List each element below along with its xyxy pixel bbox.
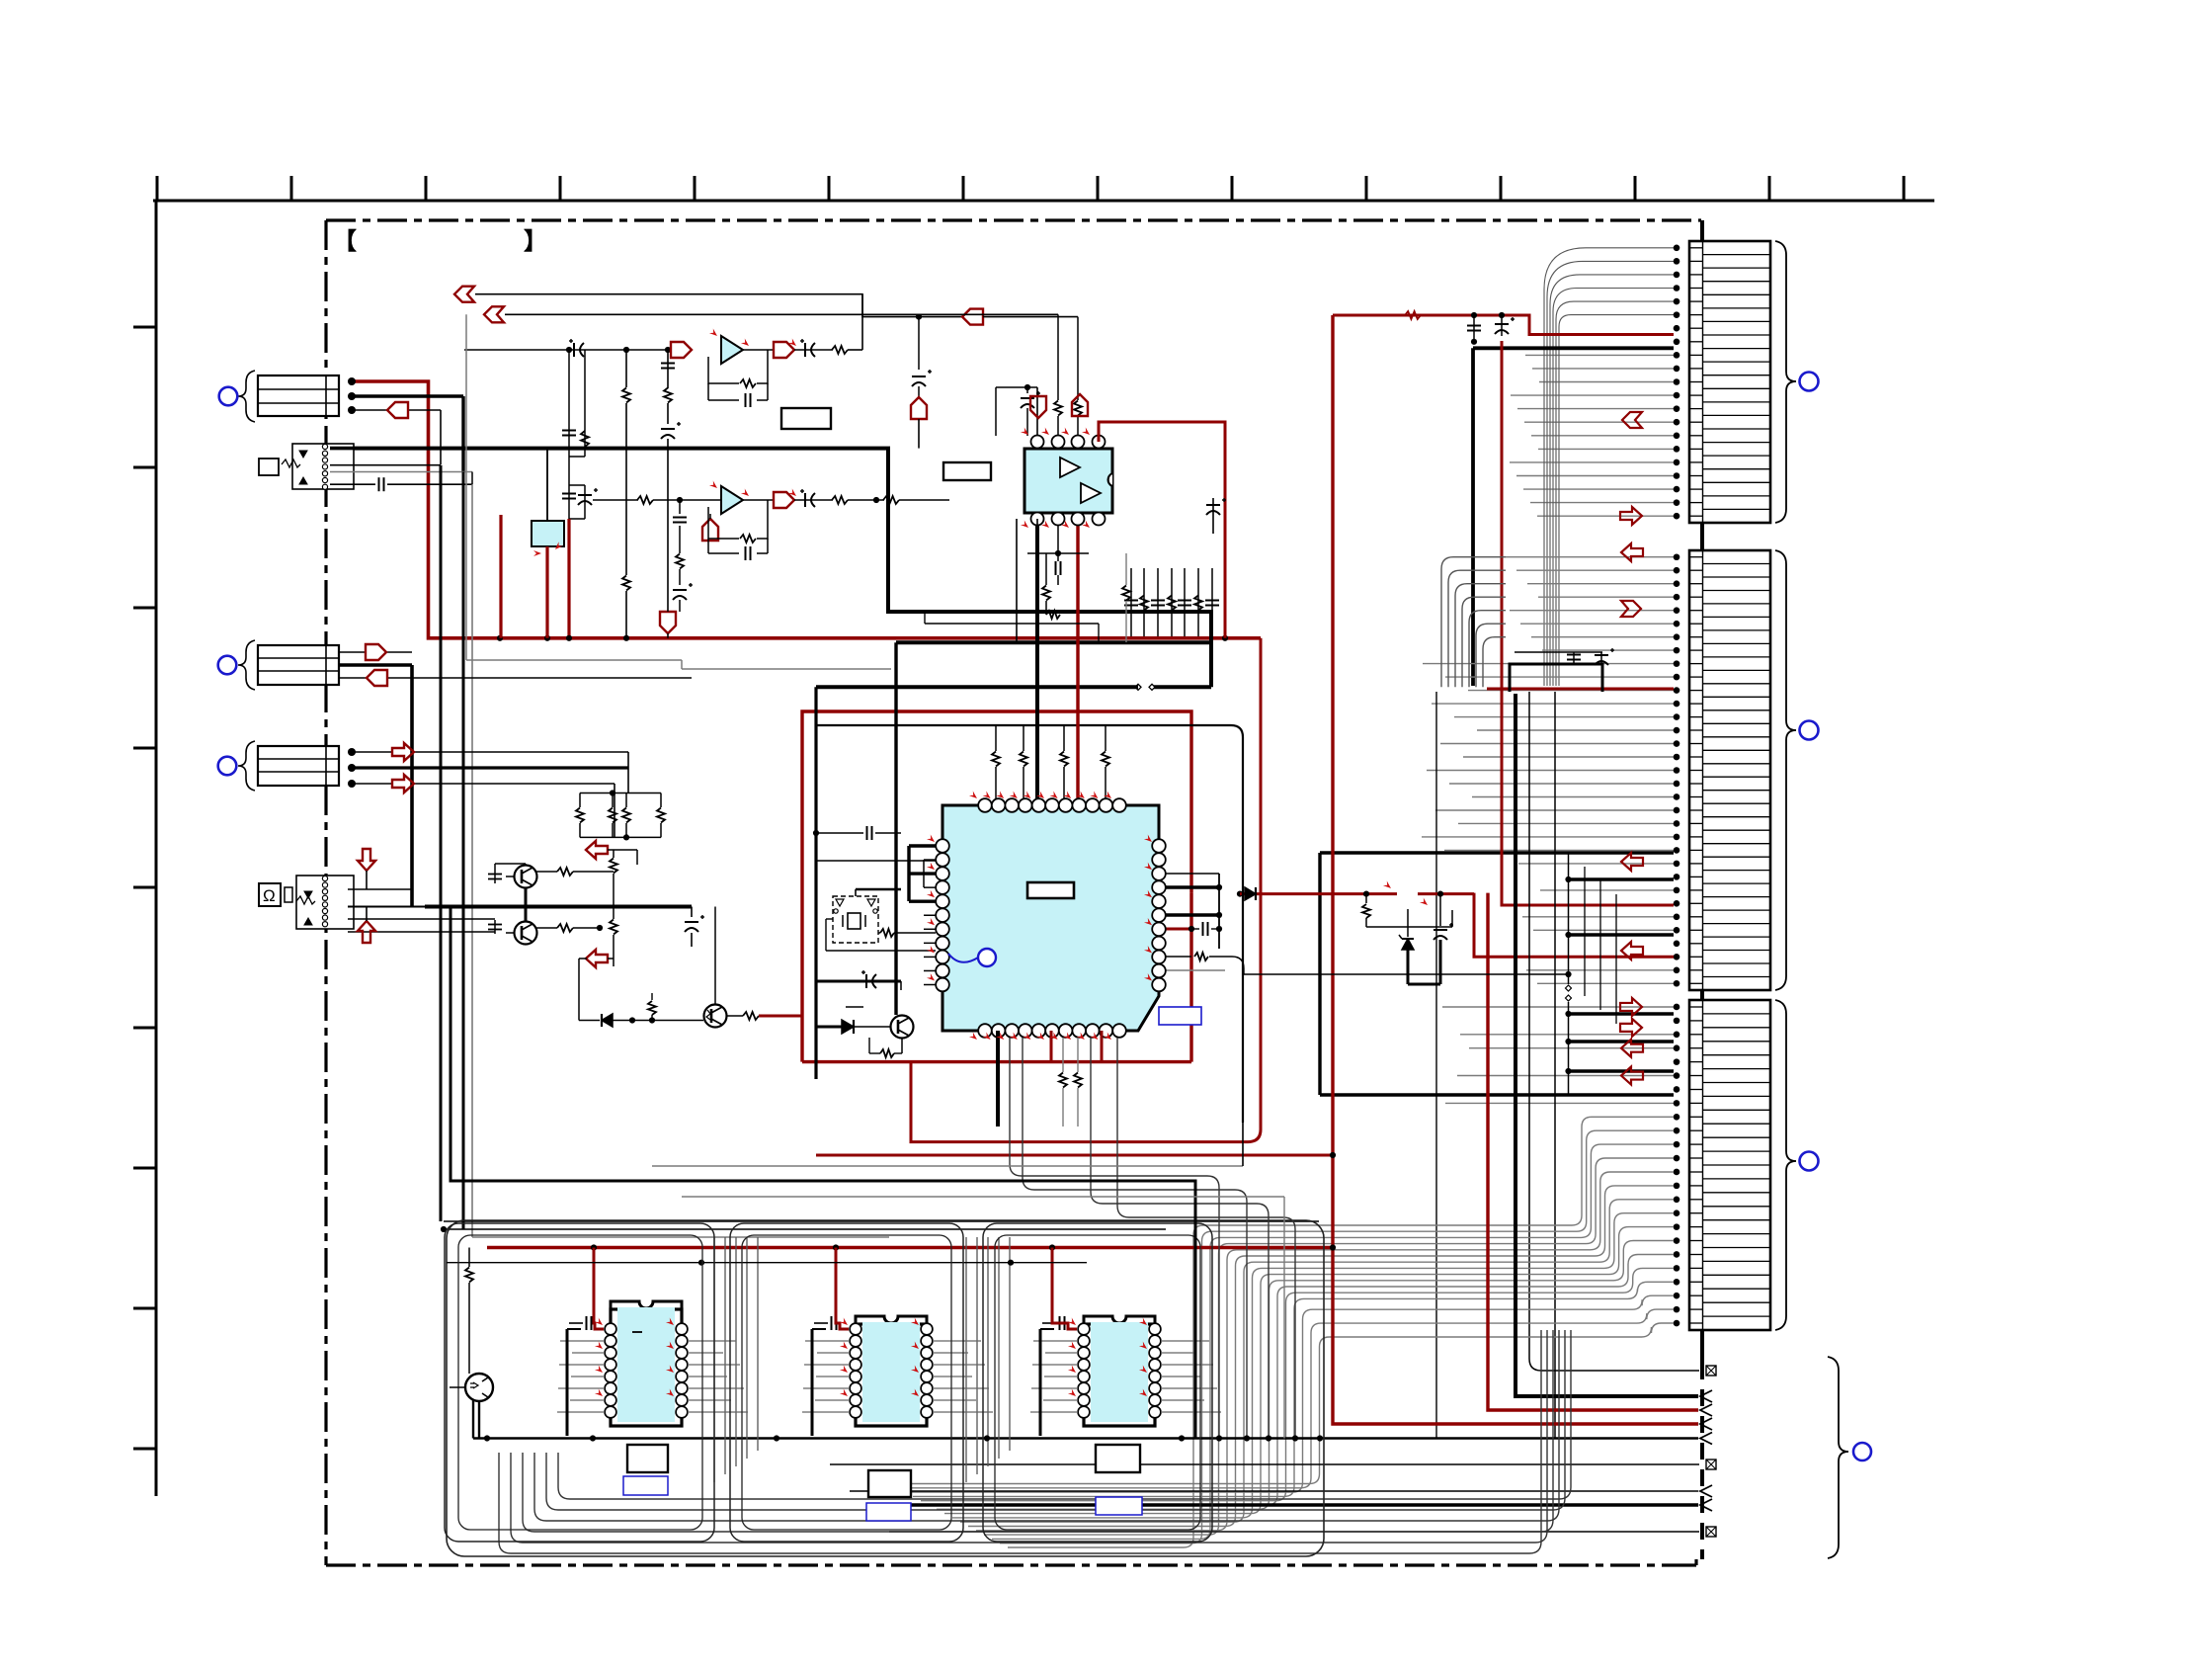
zener D3 [846,1006,863,1008]
electrolytic cap left of U4 [816,980,901,983]
wire red U2 bottom [545,546,548,638]
bus vertical thin x1587 with junctions [1568,853,1570,984]
bus wire black mid vertical [894,642,897,1015]
wire red to CN-B r26 [1502,341,1674,905]
bus enclosure IC U7 group [983,1223,1212,1542]
flag into op-amp U1A [671,342,692,358]
terminal crossed-box T1 [1706,1366,1716,1376]
electrolytic capacitor on red feed node [1501,315,1503,336]
wire vertical long from jack [440,465,443,1221]
flag on motor M2 pin3 [367,670,387,686]
resistor R22 [832,496,848,504]
bus verticals left of CN-B [1318,853,1321,1095]
connector CN-C pin dots [1674,1004,1680,1011]
wire opamp1 output [743,349,774,351]
flag below op-amp U1B [702,519,718,541]
emitter join [525,887,528,922]
wire black thick to CN-B r28 [1569,933,1674,937]
wire black DAC to QFP [1035,519,1039,805]
motor M3 pins [348,748,356,756]
capacitor on red feed node [1473,315,1475,342]
U4 bottom wires [996,1031,1000,1127]
bus vertical thin x1454 [1435,692,1437,1439]
resistor R23 [883,496,899,504]
transistor Q2 [515,922,537,945]
wire thick U7 ground [1039,1329,1042,1436]
arrow on motor M3 pin1 [392,743,414,761]
resistor R12 vertical [664,388,672,403]
Q6 wires [450,1386,465,1388]
resistor network [580,793,661,794]
left pin wires U4 [909,844,936,847]
board outline dash-dot bottom [326,1563,1691,1566]
bus wire black mid [896,640,1211,644]
IC U4 pins right [1152,839,1166,991]
wire top 2 [505,313,1058,315]
resistors above U4 [995,725,997,751]
bundle arcs into CN-B top rows [1441,557,1506,688]
capacitor at U5 pin1 [569,1322,583,1324]
resistor on red feed [1405,311,1421,319]
U3 bottom circuit [1016,519,1018,642]
capacitor C13 vertical [667,350,669,388]
arrow flag driver in 1 [586,841,608,859]
motor M1 page-ref circle [219,387,238,406]
black box around QFP [816,725,1243,1123]
top ruler ticks [157,176,1904,201]
flag top left 2 [484,306,504,322]
wire red to CN-B r30 [1474,893,1674,958]
flag out of op-amp U1B [743,499,774,501]
QFP right pin wires [1166,873,1219,875]
wire black thick to CN-B r24 [1569,877,1674,881]
electrolytic capacitor above CN-B [1600,652,1602,664]
wire gray mid link [465,314,467,660]
terminal arrow T8 wire black thick [869,1503,1698,1507]
wire vertical black mid-left [451,907,1195,1439]
svg-text:】: 】 [524,228,547,255]
wires verticals bottom-left joins [440,1220,442,1222]
bottom terminal page-ref circle [1853,1443,1871,1460]
wire red left drop [499,515,502,638]
IC U7 pins left [1078,1323,1090,1418]
crystal X1 dashed box [833,896,878,943]
board outline dash-dot top [326,218,1701,221]
bus enclosure IC U6 group [730,1223,963,1542]
phone jack J1 wires [330,447,354,451]
IC regulator U2 cyan box [532,521,564,546]
crystal X1 internals [848,913,860,929]
wire black thick to CN-B r22 [1320,851,1674,855]
motor M2 page-ref circle [218,656,237,675]
board outline dash-dot left [324,220,327,1565]
arrow up jack select [358,921,375,943]
connector CN-C body [1689,1000,1770,1330]
flag top left 1 [454,287,474,302]
resistors below U4 [1062,1038,1064,1072]
bus wire black ground bottom [472,1387,474,1439]
bus loops right of x1600 [1584,867,1586,996]
bundle wires CN-C to bottom bus [889,1117,1674,1547]
zener D5 [1407,909,1409,937]
flag mid link [962,309,983,325]
wire red feed to CN-A [1333,315,1674,335]
volume pot VR1 body [296,876,354,929]
terminal arrow T3 wire red [1488,893,1698,1410]
label box upper [781,408,831,429]
connector CN-A pin wires [1510,355,1674,516]
bus wire black QFP left [814,687,817,1079]
motor M3 body [258,746,339,786]
wire red IC feed from DAC [1099,422,1225,638]
bus corner bottom right [1691,1563,1696,1566]
QFP right lower rows [1166,956,1191,958]
capacitor above CN-B [1573,652,1575,664]
IC U4 body [942,805,1159,1031]
bus vertical thin x1548 [1529,692,1699,1371]
connector CN-B brace [1775,550,1796,990]
connector CN-B body [1689,550,1770,990]
bias network Q5 [1363,891,1369,897]
wire link to U3 via flag [862,294,962,317]
connector CN-A page-ref circle [1800,373,1819,391]
wire red Q3 to QFP box [759,1015,802,1018]
wire black thick to CN-C r5 [1569,1069,1674,1073]
motor M3 brace [238,741,255,791]
op-amp U3A triangle [1060,458,1080,477]
IC U3 pins top [1031,436,1106,449]
arrow flags column CN-A/CN-B [1622,412,1642,428]
wire thick U6 ground [811,1329,814,1436]
IC U7 label box [1096,1445,1140,1472]
thin link under Q5 [1244,973,1569,975]
connector CN-A body [1689,241,1770,523]
resistor above Q6 [468,1248,470,1268]
transistor Q4 [891,1016,914,1039]
ecap right of U3 [1212,498,1214,534]
electrolytic C14 vertical [661,428,675,430]
Q3 collector wire [714,907,716,1006]
resistor R11 [832,346,848,354]
flag shield down small [660,612,676,633]
arrow down jack select [358,849,375,871]
connector CN-C page-ref circle [1800,1152,1819,1171]
vertical returns QFP to ground bus [1010,1038,1295,1439]
connector CN-C brace [1775,1000,1796,1330]
transistor Q6 digital [465,1374,493,1401]
motor M2 pin wires [339,651,366,653]
wire red branch to QFP via arc [911,638,1261,1142]
electrolytic C24 vertical [673,589,687,591]
IC U7 body [1084,1316,1155,1324]
electrolytic C43 [691,907,693,918]
IC U3 top wires [1036,387,1038,436]
IC U7 pin wires [1030,1341,1221,1412]
terminal arrow T2 wire black thick [1516,694,1698,1396]
resistor R13 vertical [625,350,627,387]
bus wire black lower with no-connect [816,685,1138,689]
terminal arrow T4 wire red [1333,315,1698,1424]
U3 bottom box line [925,623,1099,625]
arrow on motor M3 pin3 [392,775,414,793]
res left mid [1122,586,1130,601]
IC U5 blue label box [623,1476,668,1495]
IC U3 label box [943,462,991,480]
wire U2 top [546,449,548,521]
flag shield up left of U3 [916,314,922,320]
capacitor C41 [494,870,496,883]
IC U6 body [856,1316,927,1324]
IC U6 pins right [921,1323,933,1418]
res R31 [1042,586,1050,601]
caps right of U3 [1130,568,1132,636]
capacitor C42 [494,920,496,934]
left ruler ticks [133,327,156,1449]
vertical links right of QFP [1283,1197,1285,1439]
pin arrows [1021,428,1030,438]
resistor R24 vertical [676,554,684,569]
flag on motor M2 pin1 [366,644,386,660]
diode D2 and transistor Q4 under U4 [816,1026,842,1029]
phone jack J1 label box [259,459,279,475]
feedback network U1B [757,500,768,539]
page frame top ruler line [153,200,1934,203]
terminal crossed-box T9 wire [889,1531,1699,1533]
ecap above U3 [1026,387,1028,393]
arrow flag driver in 2 [586,950,608,967]
resistor R43 vertical [613,850,614,858]
electrolytic capacitor C12 [794,349,833,351]
terminal arrow T7 wire [850,1490,1698,1492]
bottom terminal group brace [1828,1357,1848,1558]
IC U5 label box [627,1445,668,1472]
flag shield down U3 [1030,396,1046,418]
black box above CN-B [1510,664,1602,692]
motor M2 body [258,645,339,685]
bus enclosure IC U5 group [445,1223,714,1542]
wire link to DAC region [681,660,683,669]
wire thick U5 ground [566,1329,569,1436]
crystal wires [855,889,857,896]
IC U4 pins top [978,798,1126,812]
wire opamp1 input [464,349,668,351]
IC U6 pin wires [802,1341,993,1412]
motor M2 brace [238,640,255,690]
capacitor at U6 pin1 [814,1322,828,1324]
bundle arcs into CN-A top rows [1544,248,1674,686]
bus wire vertical right solid [1700,220,1704,243]
arrow flags column CN-C [1620,998,1642,1016]
flag on motor M1 pin3 [387,402,408,418]
IC U4 blue label box [1159,1007,1201,1025]
resistor R14 vertical [622,576,630,591]
capacitor at U7 pin1 [1042,1322,1056,1324]
diode D4 [1245,887,1256,900]
cap into U4 left [816,860,936,862]
wire black thick to CN-C r1 [1569,1012,1674,1016]
IC U6 pins left [850,1323,861,1418]
electrolytic cap at Q5 [1437,891,1443,897]
page frame left ruler line [155,201,158,1496]
wire red motor feed vertical [352,381,1261,638]
IC U4 pins bottom [978,1024,1126,1038]
op-amp U3B triangle [1081,483,1101,503]
nested bottom bus lines [499,1330,1571,1553]
svg-text:【: 【 [333,228,357,255]
resistor above U3 b [1077,317,1079,400]
IC U3 pins bottom [1031,513,1106,526]
bus wire black pot [425,905,692,909]
resistor R41 [557,868,573,876]
transistor Q3 [704,1005,727,1028]
resistor R45 [743,1012,759,1020]
IC U3 body [1024,449,1112,513]
IC U5 body [611,1301,682,1309]
volume pot VR1 label box [259,883,281,906]
bus vertical black from CN-A [1471,348,1475,686]
transistor Q1 [515,866,537,888]
bus vertical thin x1574 [1554,692,1556,1439]
bus wire vertical right dashed [1700,1363,1704,1559]
arc joins from left verticals [440,1220,442,1222]
IC U7 blue label box [1096,1497,1142,1515]
capacitor C23 vertical [679,500,681,514]
junction dots bottom bus [484,1435,490,1441]
bus wires above driver ICs [444,1220,1319,1222]
electrolytic capacitor C11 [573,343,575,357]
wire black thick to CN-C r3 [1569,1040,1674,1043]
connector CN-B pin wires [1422,557,1674,984]
electrolytic capacitor C22 [794,499,833,501]
connector CN-C pin wires [1442,1007,1674,1103]
resistor R44 vertical [651,993,653,1000]
cap C31 [1057,525,1059,553]
motor M1 pins [348,377,356,385]
wire red supply to transistor Q5 [1237,891,1243,897]
long link wires bottom [652,1165,1243,1167]
thin bus line y1278 [447,1262,1087,1264]
IC U4 page-ref circle [978,949,996,966]
resistor R42 [557,924,573,932]
red wire from U3 pin4 to CN-A [1099,422,1225,442]
wire red horizontal mid [816,1154,1333,1157]
motor M1 brace [238,371,255,422]
connector CN-A pin dots [1674,244,1680,251]
wire driver bottom [579,958,587,960]
op-amp U1B [721,486,743,514]
IC U5 pins left [605,1323,616,1418]
wire red DAC to QFP [1076,519,1079,805]
wire black feed to CN-A [1473,346,1674,350]
wire opamp2 input [593,499,638,501]
inter-IC bus verticals A [714,1237,1010,1482]
resistor R21 [637,496,653,504]
connector CN-A brace [1775,241,1796,523]
motor M3 pin wires [352,751,392,753]
wire red to CN-B r10 [1487,688,1674,691]
volume pot wires [348,888,412,890]
wire red feed U5 [594,1248,604,1330]
bus enclosure outer [447,1220,1324,1556]
capacitor pair left B [568,457,570,485]
flag out of op-amp U1A [774,342,794,358]
wire red feed U6 [836,1248,849,1330]
wire red from cap pair down [567,519,570,638]
svg-text:Ω: Ω [263,886,276,905]
connector CN-B page-ref circle [1800,721,1819,740]
wire to top flag [475,294,862,350]
terminal crossed-box T6 wire [830,1463,1699,1465]
bus wire black jack ground [333,449,1211,688]
IC U6 blue label box [866,1503,911,1521]
feedback network U1A [757,350,768,383]
motor M1 pin wires [352,394,463,397]
IC U6 label box [868,1470,911,1497]
terminal arrow T5 wire [473,1437,1698,1439]
wire red QFP box [802,711,1191,1062]
IC U4 label box [1027,882,1074,898]
connector CN-B pin dots [1674,553,1680,560]
capacitor pair left A [568,350,570,423]
diode D1 [579,1020,600,1022]
IC U5 pin wires [557,1341,748,1412]
motor M3 page-ref circle [218,757,237,776]
flag shield up U3 [1072,394,1088,416]
IC U4 pins left [936,839,949,991]
op-amp U1A [721,336,743,364]
minus mark U5 [632,1331,642,1333]
resistor above U3 a [1057,314,1059,400]
wire red feed U7 [1052,1248,1077,1330]
phone jack J1 body [292,444,354,489]
wire red bottom bus [487,1246,1333,1250]
IC U7 pins right [1149,1323,1161,1418]
wire black thick to CN-C r7 [1320,1093,1674,1097]
resistor near crystal [880,929,894,937]
motor M1 body [258,376,339,416]
IC U5 pins right [676,1323,688,1418]
